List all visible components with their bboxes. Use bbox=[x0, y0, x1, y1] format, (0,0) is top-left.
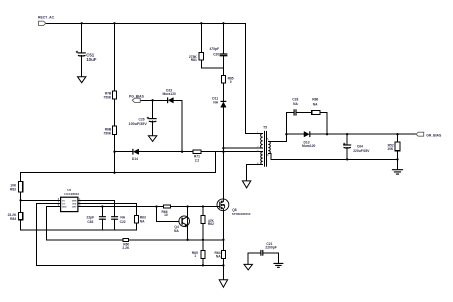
svg-text:2.2: 2.2 bbox=[195, 158, 200, 162]
svg-text:750K: 750K bbox=[103, 132, 112, 136]
svg-text:R81: R81 bbox=[191, 58, 197, 62]
svg-text:DRV: DRV bbox=[72, 206, 77, 208]
svg-text:R62: R62 bbox=[208, 222, 214, 226]
svg-text:DRN: DRN bbox=[72, 200, 77, 202]
svg-text:NA: NA bbox=[174, 229, 179, 233]
svg-text:3: 3 bbox=[257, 149, 259, 153]
svg-text:22pF: 22pF bbox=[86, 216, 94, 220]
svg-text:Mura120: Mura120 bbox=[302, 144, 316, 148]
svg-text:C28: C28 bbox=[292, 98, 298, 102]
svg-text:C63: C63 bbox=[87, 220, 93, 224]
svg-text:NA: NA bbox=[140, 220, 145, 224]
svg-text:RECT_AC: RECT_AC bbox=[38, 16, 55, 20]
svg-text:475pF: 475pF bbox=[209, 47, 219, 51]
svg-text:NA: NA bbox=[313, 102, 318, 106]
svg-text:R83: R83 bbox=[10, 188, 16, 192]
svg-text:10: 10 bbox=[164, 213, 168, 217]
svg-text:220uF/35V: 220uF/35V bbox=[353, 149, 370, 153]
svg-text:C26: C26 bbox=[139, 118, 145, 122]
svg-text:NA: NA bbox=[293, 102, 298, 106]
svg-text:NA: NA bbox=[216, 255, 221, 259]
svg-text:D14: D14 bbox=[132, 157, 138, 161]
svg-text:2.2K: 2.2K bbox=[122, 246, 130, 250]
svg-text:0: 0 bbox=[230, 80, 232, 84]
svg-text:STD2HNK60Z: STD2HNK60Z bbox=[232, 212, 251, 216]
svg-text:750K: 750K bbox=[103, 95, 112, 99]
svg-text:10K: 10K bbox=[387, 147, 394, 151]
svg-text:GND: GND bbox=[62, 206, 67, 208]
svg-text:PG_BIAS: PG_BIAS bbox=[129, 95, 145, 99]
svg-text:R84: R84 bbox=[10, 217, 16, 221]
svg-text:T5: T5 bbox=[263, 125, 267, 129]
svg-text:GR_BIAS: GR_BIAS bbox=[426, 133, 442, 137]
svg-text:R86: R86 bbox=[312, 98, 318, 102]
svg-text:100uF/35V: 100uF/35V bbox=[129, 122, 148, 126]
svg-text:C22: C22 bbox=[120, 220, 126, 224]
svg-text:UCC28910: UCC28910 bbox=[64, 192, 79, 196]
svg-text:10uF: 10uF bbox=[86, 57, 97, 62]
svg-text:5: 5 bbox=[267, 137, 269, 141]
svg-text:Mura120: Mura120 bbox=[163, 92, 177, 96]
svg-text:2200pF: 2200pF bbox=[265, 245, 276, 249]
svg-text:VDD: VDD bbox=[72, 203, 77, 205]
svg-text:NA: NA bbox=[213, 101, 218, 105]
svg-text:C20: C20 bbox=[213, 52, 219, 56]
svg-text:1: 1 bbox=[194, 254, 196, 258]
